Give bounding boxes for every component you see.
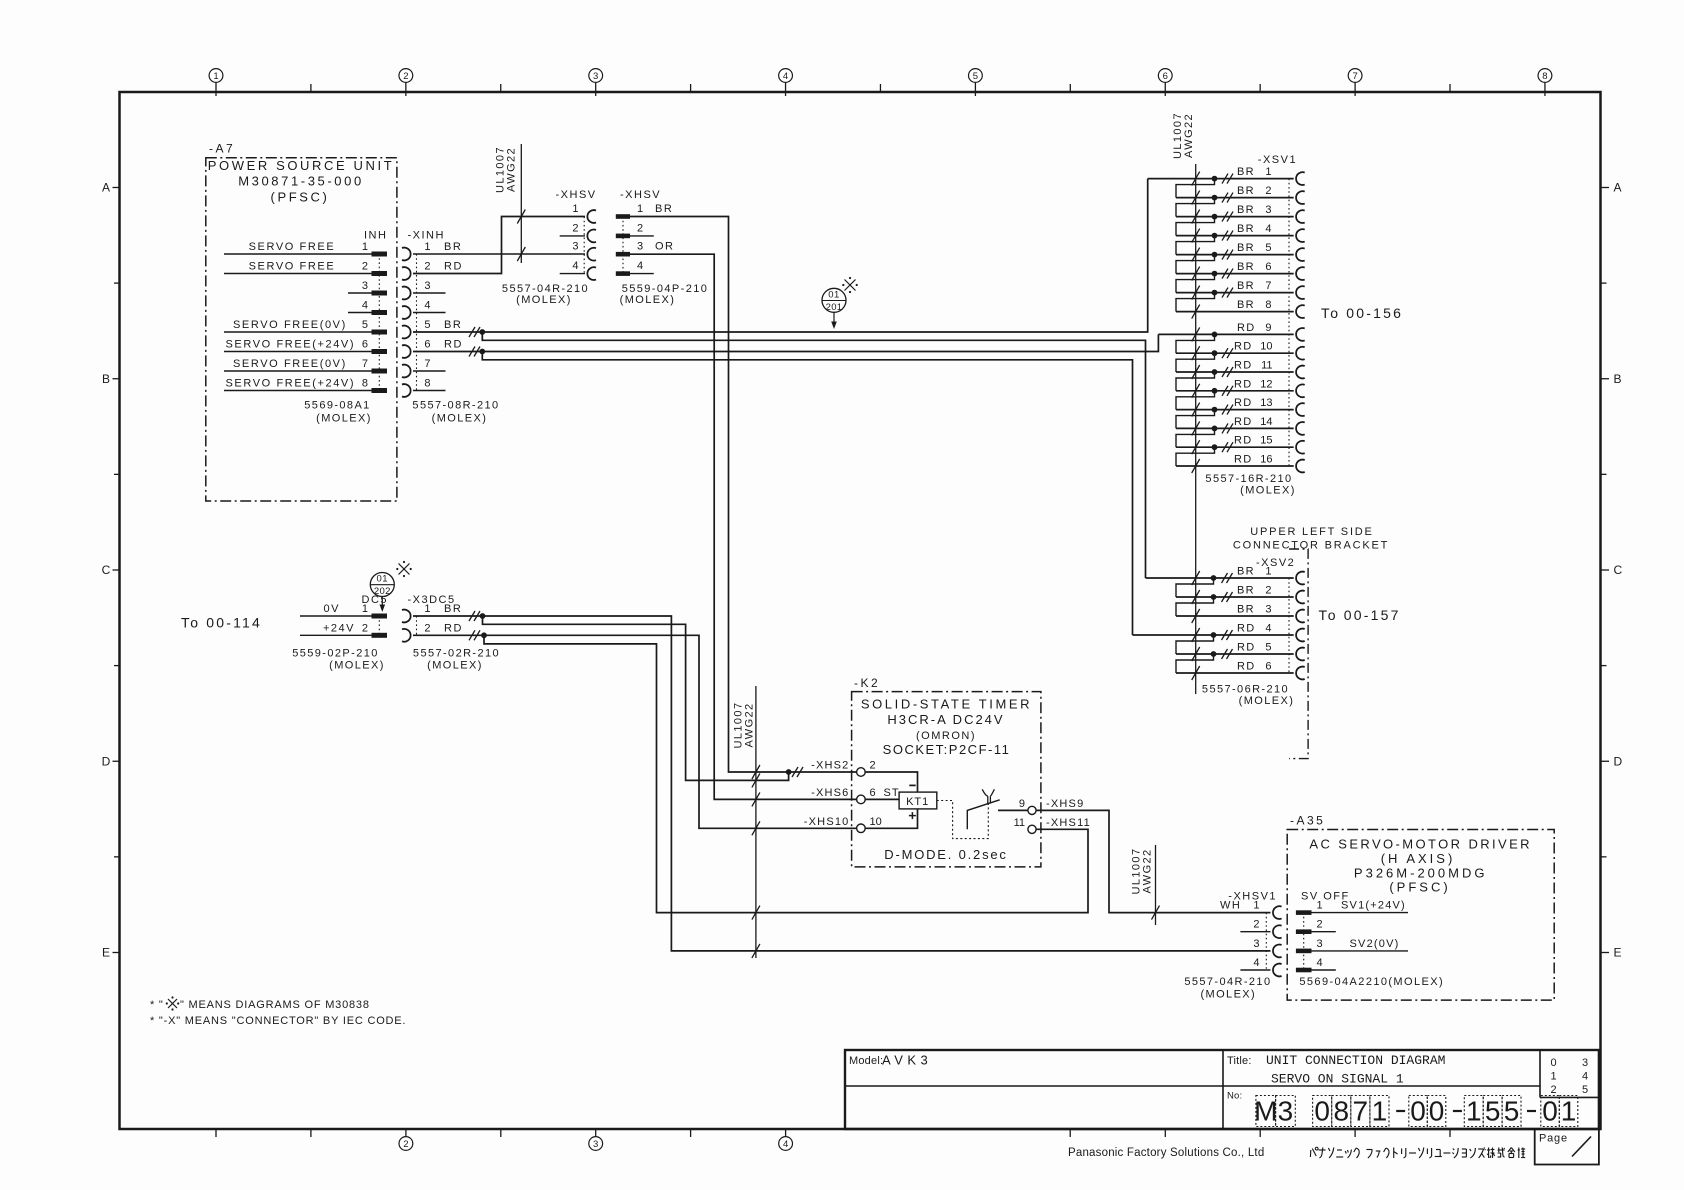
svg-text:3: 3 — [572, 241, 578, 253]
destination label To 00-114 — [181, 615, 262, 631]
svg-text:SERVO ON SIGNAL 1: SERVO ON SIGNAL 1 — [1271, 1072, 1404, 1087]
wire XHSV male pin3 OR down to timer XHS6 — [630, 254, 857, 799]
wire A7 signal to INH pin 4 — [348, 312, 372, 314]
svg-text:5559-02P-210: 5559-02P-210 — [292, 648, 379, 660]
svg-text:4: 4 — [424, 300, 430, 312]
svg-text:AWG22: AWG22 — [1183, 113, 1195, 158]
svg-text:1: 1 — [213, 71, 218, 82]
svg-text:5557-06R-210: 5557-06R-210 — [1202, 684, 1289, 696]
hash mark on XHS2 branch wire — [752, 773, 760, 787]
wire timer pin10 to coil plus — [865, 809, 917, 828]
svg-text:C: C — [102, 563, 111, 577]
svg-text:4: 4 — [783, 71, 788, 82]
svg-text:1: 1 — [1317, 900, 1323, 912]
wire A7 signal to INH pin 7 — [224, 358, 372, 371]
svg-text:4: 4 — [637, 260, 643, 272]
wire XINH pin3 stub — [413, 292, 446, 294]
drawing number M3 0871-00-155-01 — [1227, 1091, 1578, 1127]
wire XSV1 pin 15 RD — [1176, 435, 1294, 466]
hash mark wire type crossing XHSV pin1 wire — [517, 210, 525, 224]
part label 5557-08R-210 (MOLEX) — [412, 400, 499, 425]
svg-text:-K2: -K2 — [854, 676, 880, 690]
svg-text:BR: BR — [1237, 261, 1255, 273]
svg-text:5: 5 — [1582, 1084, 1588, 1096]
part label 5559-02P-210 (MOLEX) — [292, 648, 385, 672]
svg-text:10: 10 — [1260, 341, 1272, 353]
unit A7 POWER SOURCE UNIT box — [206, 142, 397, 502]
wire XINH pin2 RD jog up to XHSV pin1 — [413, 217, 585, 274]
svg-text:4: 4 — [1253, 957, 1259, 969]
part label 5557-06R-210 (MOLEX) — [1202, 684, 1294, 708]
svg-text:3: 3 — [424, 280, 430, 292]
svg-text:2: 2 — [870, 760, 876, 772]
svg-text:(PFSC): (PFSC) — [1389, 880, 1450, 895]
svg-text:BR: BR — [1237, 566, 1255, 578]
svg-text:3: 3 — [593, 1139, 598, 1150]
wire XSV1 pin 3 BR — [1176, 204, 1294, 236]
svg-text:-XSV2: -XSV2 — [1256, 557, 1295, 569]
svg-text:11: 11 — [1261, 360, 1272, 372]
svg-text:-XHS2: -XHS2 — [811, 760, 849, 772]
svg-text:BR: BR — [1237, 185, 1255, 197]
svg-text:SV1(+24V): SV1(+24V) — [1341, 900, 1406, 912]
svg-text:(PFSC): (PFSC) — [271, 190, 330, 205]
wire A7 signal to INH pin 5 — [224, 319, 372, 332]
svg-text:4: 4 — [1265, 223, 1271, 235]
svg-text:1: 1 — [362, 241, 368, 253]
wire A7 signal to INH pin 2 — [224, 261, 372, 274]
reference circle 01/201 to diagram M30838 — [822, 288, 846, 329]
wire BR branch to XSV2 BR1 — [482, 332, 1145, 578]
svg-text:D-MODE. 0.2sec: D-MODE. 0.2sec — [884, 847, 1007, 862]
svg-text:1: 1 — [362, 603, 368, 615]
svg-text:15: 15 — [1260, 435, 1272, 447]
svg-text:BR: BR — [1237, 204, 1255, 216]
svg-text:01: 01 — [828, 290, 840, 301]
svg-text:3: 3 — [362, 280, 368, 292]
svg-text:0V: 0V — [324, 603, 340, 615]
svg-text:1: 1 — [1265, 166, 1271, 178]
hash mark on XHSV1 pin3 wire — [752, 944, 760, 958]
svg-text:BR: BR — [1237, 299, 1255, 311]
svg-text:3: 3 — [1265, 604, 1271, 616]
part label 5557-04R-210 (MOLEX) at XHSV1 — [1184, 976, 1271, 1001]
cable note UL1007 AWG22 for XSV harness — [1172, 112, 1196, 694]
svg-text:* "-X" MEANS "CONNECTOR" BY IE: * "-X" MEANS "CONNECTOR" BY IEC CODE. — [150, 1015, 406, 1027]
wire 0V to DC5 pin1 — [300, 603, 372, 616]
hash mark on XHS10 wire — [752, 821, 760, 835]
svg-text:11: 11 — [1014, 817, 1025, 829]
note kome means diagrams of M30838 — [150, 996, 370, 1011]
svg-text:1: 1 — [1372, 1096, 1388, 1127]
svg-text:BR: BR — [1237, 166, 1255, 178]
connector -XHSV male 5559-04P-210 — [616, 189, 675, 276]
wire XSV1 pin 2 BR — [1176, 185, 1294, 217]
svg-text:AWG22: AWG22 — [1142, 848, 1154, 893]
wire XSV1 pin 11 RD — [1176, 360, 1294, 391]
wire XINH pin5 BR (0V) main run to XSV1 BR1 — [413, 179, 1148, 332]
revision digits — [1550, 1057, 1588, 1096]
svg-text:" MEANS DIAGRAMS OF M30838: " MEANS DIAGRAMS OF M30838 — [180, 999, 370, 1011]
wire XINH pin1 BR to XHSV pin3 — [413, 253, 585, 255]
bracket outline dash-dot — [1289, 549, 1308, 759]
svg-text:RD: RD — [1234, 454, 1253, 466]
svg-text:2: 2 — [403, 1139, 408, 1150]
svg-text:2: 2 — [424, 622, 430, 634]
wire XHSV1 pin2 stub — [1240, 931, 1270, 933]
wire timer pin2 to coil minus — [865, 772, 917, 792]
wire XHSV male pin4 stub — [630, 273, 654, 275]
svg-text:-XHS9: -XHS9 — [1046, 798, 1084, 810]
svg-text:7: 7 — [1265, 280, 1271, 292]
svg-text:1: 1 — [1253, 900, 1259, 912]
svg-text:RD: RD — [444, 622, 463, 634]
svg-text:6: 6 — [424, 339, 430, 351]
svg-text:8: 8 — [424, 378, 430, 390]
svg-text:4: 4 — [783, 1139, 788, 1150]
connector -XSV1 5557-16R-210 female — [1258, 154, 1305, 472]
wire XHS9 to XHSV1 pin1 WH — [1036, 810, 1271, 912]
svg-text:P326M-200MDG: P326M-200MDG — [1354, 866, 1488, 881]
svg-text:3: 3 — [637, 241, 643, 253]
svg-text:A: A — [102, 181, 110, 195]
wire header pin2 stub — [1312, 931, 1336, 933]
svg-text:BR: BR — [444, 319, 462, 331]
connector -XHSV female 5557-04R-210 — [556, 189, 597, 280]
svg-text:3: 3 — [1278, 1096, 1294, 1127]
svg-text:SOCKET:P2CF-11: SOCKET:P2CF-11 — [883, 742, 1011, 757]
svg-text:SERVO FREE(+24V): SERVO FREE(+24V) — [226, 339, 356, 351]
wire XHSV female pin2 stub — [560, 235, 585, 237]
svg-text:0: 0 — [1314, 1096, 1330, 1127]
svg-text:BR: BR — [1237, 604, 1255, 616]
svg-text:BR: BR — [1237, 280, 1255, 292]
part label 5557-02R-210 (MOLEX) — [413, 648, 500, 672]
wire XSV1 pin 5 BR — [1176, 242, 1294, 274]
svg-text:2: 2 — [403, 71, 408, 82]
reference circle 01/202 to diagram M30838 — [370, 573, 394, 613]
wire header pin4 stub — [1312, 969, 1336, 971]
svg-text:M30871-35-000: M30871-35-000 — [238, 174, 364, 189]
wire A7 signal to INH pin 8 — [224, 378, 372, 391]
svg-text:7: 7 — [362, 358, 368, 370]
svg-text:14: 14 — [1260, 416, 1272, 428]
svg-text:RD: RD — [1237, 322, 1256, 334]
wire XHSV male pin2 stub — [630, 235, 654, 237]
svg-text:(MOLEX): (MOLEX) — [1239, 695, 1295, 707]
wire XINH pin8 stub — [413, 390, 446, 392]
wire XINH pin6 RD (+24V) main run to XSV1 RD9 — [413, 334, 1158, 351]
connector DC5 male 5559-02P-210 — [362, 594, 389, 638]
svg-text:4: 4 — [1582, 1071, 1588, 1083]
svg-text:Page: Page — [1539, 1133, 1568, 1145]
destination label To 00-156 — [1321, 305, 1403, 321]
wire XSV1 pin 12 RD — [1176, 378, 1294, 409]
svg-text:1: 1 — [637, 203, 643, 215]
svg-text:SERVO FREE(0V): SERVO FREE(0V) — [233, 358, 347, 370]
wire XHSV1 pin4 stub — [1240, 969, 1270, 971]
double hash on X3DC5 pin1 wire — [469, 611, 480, 621]
svg-text:6: 6 — [362, 339, 368, 351]
coil plus polarity — [909, 812, 916, 819]
svg-text:5557-02R-210: 5557-02R-210 — [413, 648, 500, 660]
svg-text:5569-08A1: 5569-08A1 — [304, 400, 370, 412]
svg-text:0: 0 — [1550, 1057, 1556, 1069]
terminal XHS6 (timer pin 6 ST) — [811, 787, 899, 804]
svg-text:6: 6 — [870, 787, 876, 799]
drawing title — [1227, 1053, 1445, 1087]
svg-text:5557-16R-210: 5557-16R-210 — [1205, 473, 1292, 485]
svg-text:201: 201 — [826, 302, 843, 313]
svg-text:-XHS11: -XHS11 — [1046, 817, 1091, 829]
svg-text:CONNECTOR BRACKET: CONNECTOR BRACKET — [1233, 540, 1389, 552]
svg-text:-XHS6: -XHS6 — [811, 787, 849, 799]
page box — [1535, 1129, 1599, 1165]
svg-text:16: 16 — [1260, 454, 1272, 466]
svg-text:E: E — [102, 946, 110, 960]
svg-text:To 00-157: To 00-157 — [1319, 607, 1401, 623]
svg-text:-XHS10: -XHS10 — [804, 816, 850, 828]
svg-text:2: 2 — [637, 222, 643, 234]
label UPPER LEFT SIDE CONNECTOR BRACKET — [1233, 526, 1389, 552]
svg-text:12: 12 — [1260, 378, 1272, 390]
junction node on X3DC5 RD wire — [481, 632, 487, 638]
svg-text:H3CR-A DC24V: H3CR-A DC24V — [887, 712, 1004, 727]
wire timer pin6 ST to coil — [865, 798, 899, 800]
svg-text:8: 8 — [1265, 299, 1271, 311]
svg-text:Title:: Title: — [1227, 1055, 1252, 1067]
svg-text:SERVO FREE(+24V): SERVO FREE(+24V) — [226, 378, 356, 390]
svg-text:2: 2 — [1253, 919, 1259, 931]
svg-text:3: 3 — [593, 71, 598, 82]
svg-text:SERVO FREE: SERVO FREE — [249, 261, 336, 273]
svg-text:RD: RD — [444, 339, 463, 351]
part label 5557-04R-210 (MOLEX) — [502, 283, 589, 306]
terminal XHS2 (timer pin 2) — [811, 760, 876, 777]
cable note UL1007 AWG22 top-left — [495, 144, 522, 263]
wire A7 signal to INH pin 6 — [224, 339, 372, 352]
svg-text:UPPER LEFT SIDE: UPPER LEFT SIDE — [1250, 526, 1373, 538]
svg-text:0: 0 — [1410, 1096, 1426, 1127]
wire XSV2 pin 5 RD — [1176, 642, 1294, 674]
connector -XHSV1 female 5557-04R-210 — [1220, 891, 1282, 977]
svg-text:(OMRON): (OMRON) — [916, 730, 976, 742]
wire RD branch to XSV2 RD4 — [482, 352, 1132, 636]
svg-text:13: 13 — [1260, 397, 1272, 409]
wire XSV1 pin 13 RD — [1176, 397, 1294, 428]
svg-text:BR: BR — [1237, 242, 1255, 254]
svg-text:POWER SOURCE UNIT: POWER SOURCE UNIT — [208, 158, 394, 173]
svg-text:OR: OR — [655, 241, 675, 253]
svg-text:AWG22: AWG22 — [506, 147, 518, 192]
part label 5557-16R-210 (MOLEX) — [1205, 473, 1295, 497]
svg-text:2: 2 — [424, 261, 430, 273]
svg-text:To 00-156: To 00-156 — [1321, 305, 1403, 321]
kome mark beside 01/201 — [842, 277, 858, 293]
svg-text:Panasonic Factory Solutions Co: Panasonic Factory Solutions Co., Ltd — [1068, 1147, 1264, 1159]
svg-text:BR: BR — [655, 203, 673, 215]
terminal XHS10 (timer pin 10) — [804, 816, 882, 833]
svg-text:1: 1 — [1550, 1071, 1556, 1083]
svg-text:0: 0 — [1542, 1096, 1558, 1127]
svg-text:-XHSV: -XHSV — [556, 189, 597, 201]
wire XSV2 pin 2 BR — [1176, 585, 1294, 617]
svg-text:To 00-114: To 00-114 — [181, 615, 262, 631]
wire A7 signal to INH pin 3 — [348, 292, 372, 294]
svg-text:8: 8 — [1333, 1096, 1349, 1127]
junction node BR branch on XHS2 wire — [786, 769, 792, 775]
wire A7 signal to INH pin 1 — [224, 241, 372, 254]
svg-text:2: 2 — [1317, 919, 1323, 931]
svg-text:4: 4 — [1317, 957, 1323, 969]
wire XSV1 pin 14 RD — [1176, 416, 1294, 447]
svg-text:Model:: Model: — [849, 1055, 883, 1067]
svg-text:RD: RD — [1234, 341, 1253, 353]
svg-text:RD: RD — [1234, 360, 1253, 372]
svg-text:(MOLEX): (MOLEX) — [432, 413, 488, 425]
double hash on XINH pin5 wire — [469, 327, 480, 337]
svg-text:1: 1 — [1466, 1096, 1482, 1127]
svg-text:KT1: KT1 — [906, 796, 929, 808]
svg-text:No:: No: — [1227, 1091, 1242, 1102]
svg-text:1: 1 — [1561, 1096, 1577, 1127]
wire XSV1 pin 4 BR — [1176, 223, 1294, 255]
svg-text:-A35: -A35 — [1290, 814, 1325, 828]
wire XINH pin4 stub — [413, 312, 446, 314]
svg-text:6: 6 — [1163, 71, 1168, 82]
wire XSV2 pin 4 RD — [1133, 623, 1294, 655]
svg-text:* ": * " — [150, 999, 164, 1011]
svg-text:(MOLEX): (MOLEX) — [1240, 485, 1296, 497]
part label 5559-04P-210 (MOLEX) — [620, 283, 709, 306]
note -X means connector by IEC code — [150, 1015, 406, 1027]
wire XINH pin7 stub — [413, 370, 446, 372]
svg-text:1: 1 — [424, 603, 430, 615]
delayed contact KT1 (9-11) — [967, 789, 1028, 829]
svg-text:BR: BR — [1237, 585, 1255, 597]
terminal XHS9 (timer pin 9) — [1019, 798, 1085, 815]
svg-text:5: 5 — [424, 319, 430, 331]
svg-text:5: 5 — [1504, 1096, 1520, 1127]
hash mark on XHSV1 pin1 wire — [752, 906, 760, 920]
company name — [1068, 1147, 1264, 1159]
svg-text:2: 2 — [362, 622, 368, 634]
double hash on XHS2 wire — [792, 767, 803, 777]
svg-text:3: 3 — [1265, 204, 1271, 216]
part label 5569-08A1 (MOLEX) — [304, 400, 372, 425]
svg-text:5557-08R-210: 5557-08R-210 — [412, 400, 499, 412]
svg-text:RD: RD — [1237, 642, 1256, 654]
svg-text:7: 7 — [1353, 1096, 1369, 1127]
connector -XINH (5557-08R-210 female) — [402, 230, 463, 397]
svg-text:(H AXIS): (H AXIS) — [1381, 851, 1456, 866]
svg-text:(MOLEX): (MOLEX) — [329, 660, 385, 672]
svg-text:5557-04R-210: 5557-04R-210 — [1184, 976, 1271, 988]
svg-text:9: 9 — [1265, 322, 1271, 334]
svg-text:(MOLEX): (MOLEX) — [516, 294, 572, 306]
hash mark on XHS6 wire — [752, 792, 760, 806]
svg-text:E: E — [1614, 946, 1622, 960]
svg-text:RD: RD — [1234, 435, 1253, 447]
svg-text:6: 6 — [1265, 261, 1271, 273]
svg-text:3: 3 — [1253, 938, 1259, 950]
wire BR branch down to timer supply XHS2 — [483, 616, 789, 780]
svg-text:M: M — [1254, 1096, 1277, 1127]
svg-text:(MOLEX): (MOLEX) — [316, 413, 372, 425]
model name AVK3 — [849, 1053, 932, 1068]
svg-text:ST: ST — [884, 787, 900, 799]
svg-text:(MOLEX): (MOLEX) — [427, 660, 483, 672]
wire XSV1 pin 1 BR — [1148, 166, 1294, 198]
svg-text:RD: RD — [1234, 397, 1253, 409]
coil minus polarity — [909, 784, 915, 786]
wire XHSV male pin1 BR down to timer XHS2 — [630, 217, 857, 773]
svg-text:SOLID-STATE TIMER: SOLID-STATE TIMER — [861, 697, 1032, 712]
kome mark beside 01/202 — [396, 561, 412, 577]
svg-text:1: 1 — [1265, 566, 1271, 578]
wire XSV1 pin 8 BR — [1176, 299, 1294, 319]
svg-text:BR: BR — [1237, 223, 1255, 235]
svg-text:(MOLEX): (MOLEX) — [620, 294, 676, 306]
wire X3DC5 pin1 BR (0V) main to XHSV1 pin3 — [413, 616, 1271, 951]
junction node on RD wire — [479, 349, 485, 355]
svg-text:5: 5 — [1485, 1096, 1501, 1127]
cable note UL1007 AWG22 servo harness — [1131, 845, 1156, 925]
svg-text:6: 6 — [1265, 661, 1271, 673]
svg-text:BR: BR — [444, 241, 462, 253]
wire XHSV female pin4 stub — [560, 273, 585, 275]
wire X3DC5 pin2 RD (+24V) main to timer XHS10 — [413, 635, 857, 828]
wire XSV1 pin 10 RD — [1176, 341, 1294, 372]
svg-text:2: 2 — [572, 222, 578, 234]
svg-text:4: 4 — [572, 260, 578, 272]
connector INH (5569-08A1 male header in A7) — [362, 230, 388, 394]
svg-text:RD: RD — [444, 261, 463, 273]
svg-text:SV2(0V): SV2(0V) — [1350, 938, 1400, 950]
svg-text:SERVO FREE: SERVO FREE — [249, 241, 336, 253]
svg-text:5: 5 — [1265, 242, 1271, 254]
wire XSV2 pin 1 BR — [1146, 566, 1294, 598]
svg-text:7: 7 — [1352, 71, 1357, 82]
unit A35 AC SERVO-MOTOR DRIVER box — [1287, 814, 1554, 1001]
svg-text:4: 4 — [1265, 623, 1271, 635]
svg-text:RD: RD — [1234, 378, 1253, 390]
svg-text:0: 0 — [1429, 1096, 1445, 1127]
svg-text:8: 8 — [1542, 71, 1547, 82]
terminal XHS11 (timer pin 11) — [1014, 817, 1091, 834]
svg-text:2: 2 — [1265, 585, 1271, 597]
wire RD branch down to timer contact XHS11 — [484, 635, 1088, 912]
timer coil KT1 — [899, 792, 937, 809]
svg-text:RD: RD — [1234, 416, 1253, 428]
double hash on X3DC5 pin2 wire — [469, 630, 480, 640]
wire XSV2 pin 6 RD — [1176, 661, 1294, 681]
svg-text:7: 7 — [424, 358, 430, 370]
svg-text:3: 3 — [1582, 1057, 1588, 1069]
svg-text:-XHSV: -XHSV — [620, 189, 661, 201]
hash mark wire type crossing XHSV pin3 wire — [517, 247, 525, 261]
svg-text:3: 3 — [1317, 938, 1323, 950]
svg-text:D: D — [1614, 754, 1623, 768]
svg-text:5: 5 — [362, 319, 368, 331]
wire SV2(0V) from header pin3 — [1312, 938, 1409, 951]
svg-text:2: 2 — [1550, 1084, 1556, 1096]
wire XSV1 pin 7 BR — [1176, 280, 1294, 312]
svg-text:10: 10 — [870, 816, 882, 828]
svg-text:(MOLEX): (MOLEX) — [1200, 989, 1256, 1001]
svg-text:+24V: +24V — [323, 622, 355, 634]
svg-text:INH: INH — [364, 230, 387, 242]
